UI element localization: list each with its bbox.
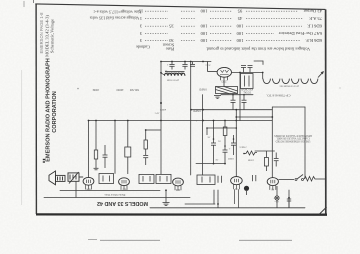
svg-text:Cathode: Cathode — [136, 44, 150, 49]
svg-text:100: 100 — [236, 24, 244, 29]
svg-text:30: 30 — [169, 38, 174, 43]
svg-text:25Z5: 25Z5 — [221, 79, 227, 82]
svg-text:Plate: Plate — [166, 47, 175, 52]
svg-text:6D6: 6D6 — [175, 188, 180, 191]
svg-text:6D6: 6D6 — [86, 187, 91, 190]
svg-text:95: 95 — [237, 9, 242, 14]
svg-text:45: 45 — [237, 16, 242, 21]
svg-text:RESISTANCE VALUES IN OHMS: RESISTANCE VALUES IN OHMS — [274, 134, 312, 137]
svg-text:Line voltage=117.5 volts a-c: Line voltage=117.5 volts a-c — [93, 10, 141, 15]
svg-text:40 50 30 PRIM SEC: 40 50 30 PRIM SEC — [279, 85, 299, 88]
svg-text:6D6 R.F.: 6D6 R.F. — [305, 38, 322, 43]
svg-text:EMERSON RADIO AND PHONOGRAPH: EMERSON RADIO AND PHONOGRAPH — [46, 58, 52, 162]
svg-text:CP-7586 616 TO.: CP-7586 616 TO. — [266, 94, 290, 98]
svg-text:75 A.F.: 75 A.F. — [309, 16, 322, 21]
svg-text:2 MEG: 2 MEG — [239, 146, 246, 149]
svg-text:100M: 100M — [92, 88, 99, 91]
svg-text:CAPACITY VALUES IN MFD.: CAPACITY VALUES IN MFD. — [276, 137, 310, 140]
svg-text:EMERSON PAGE 1-8: EMERSON PAGE 1-8 — [39, 12, 44, 54]
svg-text:115V: 115V — [274, 196, 280, 199]
svg-text:100: 100 — [200, 24, 208, 29]
svg-text:A: A — [195, 119, 197, 122]
svg-text:Voltage across field 135 volts: Voltage across field 135 volts — [89, 15, 139, 20]
svg-text:Phono Motor Data: Phono Motor Data — [104, 193, 126, 196]
svg-text:CORPORATION: CORPORATION — [52, 91, 58, 133]
svg-text:35: 35 — [169, 24, 174, 29]
svg-text:43 Output: 43 Output — [303, 9, 322, 14]
svg-text:50000: 50000 — [227, 157, 234, 160]
svg-text:MODELS 33 AND 42: MODELS 33 AND 42 — [97, 200, 148, 206]
svg-text:100: 100 — [236, 38, 244, 43]
svg-text:60~: 60~ — [274, 200, 279, 203]
svg-text:25Z5: 25Z5 — [205, 64, 211, 67]
svg-text:6D6 I.F.: 6D6 I.F. — [307, 24, 322, 29]
svg-text:TOTAL: TOTAL — [242, 91, 251, 94]
svg-text:6A7: 6A7 — [121, 188, 126, 191]
svg-text:100: 100 — [200, 9, 208, 14]
svg-text:100: 100 — [200, 31, 208, 36]
svg-text:40000: 40000 — [159, 108, 166, 111]
svg-text:450 OHMS: 450 OHMS — [240, 88, 253, 91]
svg-text:40-50 OHM: 40-50 OHM — [166, 78, 179, 81]
svg-text:Voltages listed below are from: Voltages listed below are from the point… — [206, 46, 310, 51]
svg-text:AVC: AVC — [154, 112, 159, 115]
svg-text:UNLESS OTHERWISE NOTED: UNLESS OTHERWISE NOTED — [276, 140, 311, 143]
svg-text:100: 100 — [236, 31, 244, 36]
svg-text:6A7 Osc-First Detector: 6A7 Osc-First Detector — [278, 31, 322, 36]
svg-text:300-500: 300-500 — [129, 88, 139, 91]
svg-text:100: 100 — [200, 38, 208, 43]
svg-text:250M: 250M — [247, 159, 254, 162]
svg-text:8 MFD: 8 MFD — [199, 88, 207, 91]
svg-text:8 MFD: 8 MFD — [193, 109, 201, 112]
svg-text:40000: 40000 — [116, 88, 124, 91]
